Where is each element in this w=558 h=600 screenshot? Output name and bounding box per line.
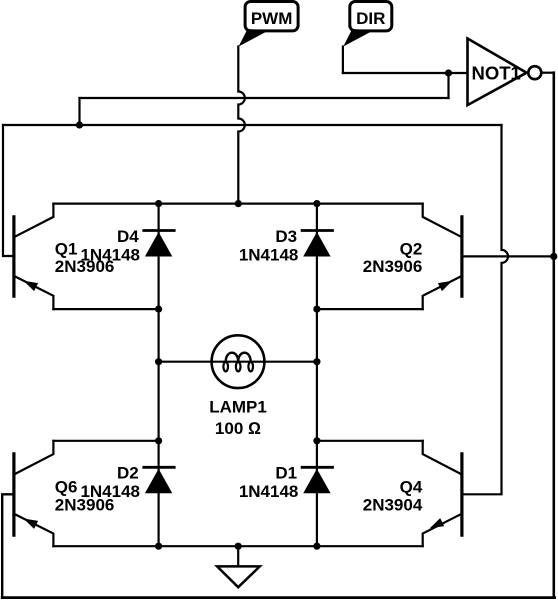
transistor Q4 2N3904 [363,441,462,546]
transistor Q2 2N3906 [363,204,462,310]
wire top collector rail [53,203,422,205]
svg-text:100 Ω: 100 Ω [215,419,261,438]
node junction dot D3 bottom [313,306,320,313]
wire bottom rail [2,596,554,599]
svg-text:Q4: Q4 [400,478,423,497]
diode D3 [239,227,333,265]
wire horizontal y=98 [80,97,449,99]
wire left upper rail to Q1 base [3,125,14,256]
svg-text:1N4148: 1N4148 [239,482,299,501]
node junction dot at (79.5,125) [76,121,83,128]
lamp LAMP1 [159,335,317,438]
node junction dot D4 top [155,200,162,207]
op-amp NOT1 inverter [468,39,542,106]
node junction dot lamp right [313,358,320,365]
svg-text:Q2: Q2 [400,239,423,258]
svg-text:2N3906: 2N3906 [55,495,115,514]
wire left lower rail up to Q6 base [2,494,14,597]
node junction dot D2 top [155,437,162,444]
transistor Q1 2N3906 [14,204,114,310]
svg-text:D4: D4 [117,227,139,246]
svg-text:D3: D3 [275,227,297,246]
transistor Q6 2N3906 [14,441,114,546]
diode D4 [80,227,174,265]
node PWM flag [239,2,299,47]
node junction dot D1 bottom [313,543,320,550]
svg-text:2N3906: 2N3906 [55,257,115,276]
wire left mid vertical x=158.6 [158,204,160,547]
ground [217,546,260,587]
node junction dot PWM on top rail [235,200,242,207]
wire from NOT1 input node down [447,73,449,98]
node DIR flag [343,2,392,47]
svg-text:Q1: Q1 [55,239,78,258]
svg-text:LAMP1: LAMP1 [209,398,267,417]
wire NOT1 output to right rail [541,72,554,74]
node junction dot D1 top [313,437,320,444]
wire right mid vertical x=316.9 [316,204,318,547]
diode D2 [80,464,174,502]
svg-text:DIR: DIR [356,9,385,28]
svg-text:2N3906: 2N3906 [363,257,423,276]
node junction dot lamp left [155,358,162,365]
wire bottom emitter rail [53,545,422,547]
wire right rail down [552,73,555,598]
wire DIR down [342,47,344,74]
svg-text:NOT1: NOT1 [472,62,521,83]
svg-text:2N3904: 2N3904 [363,495,423,514]
wire Q6 collector rail [53,440,158,442]
wire Q2 emitter rail [317,308,423,310]
wire vertical x=79.5 [78,98,80,125]
wire Q2 base to right rail [462,255,554,257]
wire Q4 collector rail [317,440,423,442]
wire DIR to NOT1 input [343,72,468,74]
wire PWM vertical with hops over y=98 and y=125 [238,47,245,204]
svg-text:PWM: PWM [251,9,293,28]
node junction dot ground tap [235,543,242,550]
svg-text:1N4148: 1N4148 [239,245,299,264]
node junction dot D4 bottom [155,306,162,313]
node junction dot D2 bottom [155,543,162,550]
svg-text:Q6: Q6 [55,478,78,497]
wire vertical x=501.5 with hop over Q2 base, to Q4 base [462,125,508,494]
svg-text:D1: D1 [275,464,297,483]
diode D1 [239,464,333,502]
node junction dot Q2 base on right rail [550,253,557,260]
wire Q1 emitter rail [53,308,158,310]
node junction dot NOT1 input [445,69,452,76]
wire horizontal y=125 [3,124,502,126]
node junction dot D3 top [313,200,320,207]
svg-text:D2: D2 [117,464,139,483]
